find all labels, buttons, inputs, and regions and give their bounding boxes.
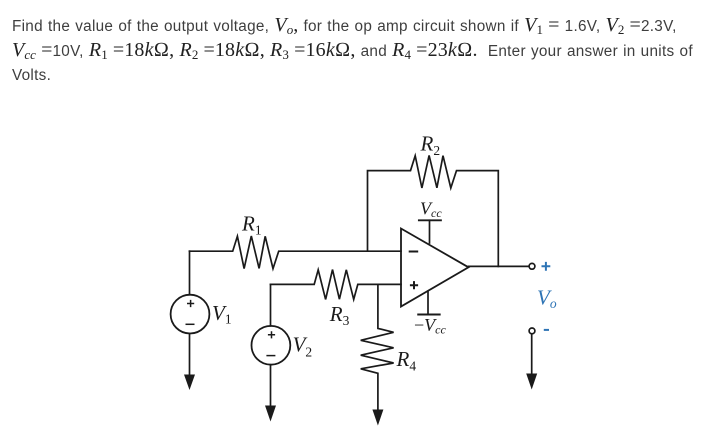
svg-text:V1: V1 xyxy=(212,301,232,326)
svg-text:R1: R1 xyxy=(241,212,262,238)
svg-text:Vo: Vo xyxy=(537,286,557,312)
svg-text:R2: R2 xyxy=(420,131,441,158)
svg-text:Vcc: Vcc xyxy=(420,199,442,221)
svg-text:R4: R4 xyxy=(396,347,417,374)
svg-text:−Vcc: −Vcc xyxy=(414,315,446,337)
svg-text:R3: R3 xyxy=(329,302,350,328)
svg-text:V2: V2 xyxy=(293,333,313,360)
